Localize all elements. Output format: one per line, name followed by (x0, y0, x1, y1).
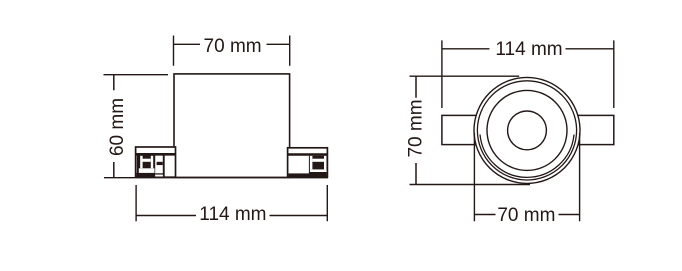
dimension 70 mm vertical: top tick line (410, 75, 520, 77)
dimension 70 mm top: dimension line (174, 43, 290, 45)
dimension 70 mm vertical: bottom tick line (410, 184, 531, 186)
reflector circle (487, 90, 567, 170)
dimension 114 mm bottom: extension ticks (136, 185, 327, 221)
dimension 114 mm top: dimension line (442, 48, 614, 50)
svg-text:114 mm: 114 mm (199, 204, 266, 225)
right terminal bracket: dark block with clip cutouts (289, 156, 327, 177)
trim ring outer (474, 77, 580, 183)
dimension 60 mm left: dimension line (113, 75, 115, 178)
left terminal bracket: dark block with clip cutouts (136, 156, 164, 178)
left bracket clip white details (139, 156, 163, 177)
trim ring inner arc (lower half) (480, 135, 574, 178)
svg-text:70 mm: 70 mm (406, 99, 427, 157)
left terminal bracket: lid divider (136, 153, 176, 156)
baseline bottom edge (104, 177, 328, 179)
svg-text:60 mm: 60 mm (107, 98, 128, 156)
right terminal bracket: lid divider (288, 153, 328, 156)
right bracket clip white details (310, 156, 327, 172)
dimension 70 mm vertical: dimension line (415, 76, 417, 184)
dimension 114 mm bottom: dimension line (136, 215, 327, 217)
svg-text:70 mm: 70 mm (497, 205, 555, 226)
bezel mask disc (474, 77, 581, 184)
svg-text:70 mm: 70 mm (204, 36, 262, 57)
lamp circle (508, 111, 547, 150)
left terminal bracket: box (136, 147, 176, 177)
fixture body rectangle (174, 74, 290, 177)
right terminal bracket: box (288, 148, 328, 177)
dimension 114 mm top: extension ticks (442, 40, 614, 108)
dimension 70 mm bottom: dimension line (474, 214, 579, 216)
right mounting tab (576, 115, 614, 144)
dimension 60 mm left: top tick line (104, 74, 169, 76)
dimension 70 mm top: extension ticks (174, 36, 290, 66)
svg-text:114 mm: 114 mm (495, 39, 562, 60)
left mounting tab (442, 115, 478, 144)
dimension 70 mm bottom: extension lines (474, 133, 579, 221)
trim ring middle (477, 81, 576, 180)
